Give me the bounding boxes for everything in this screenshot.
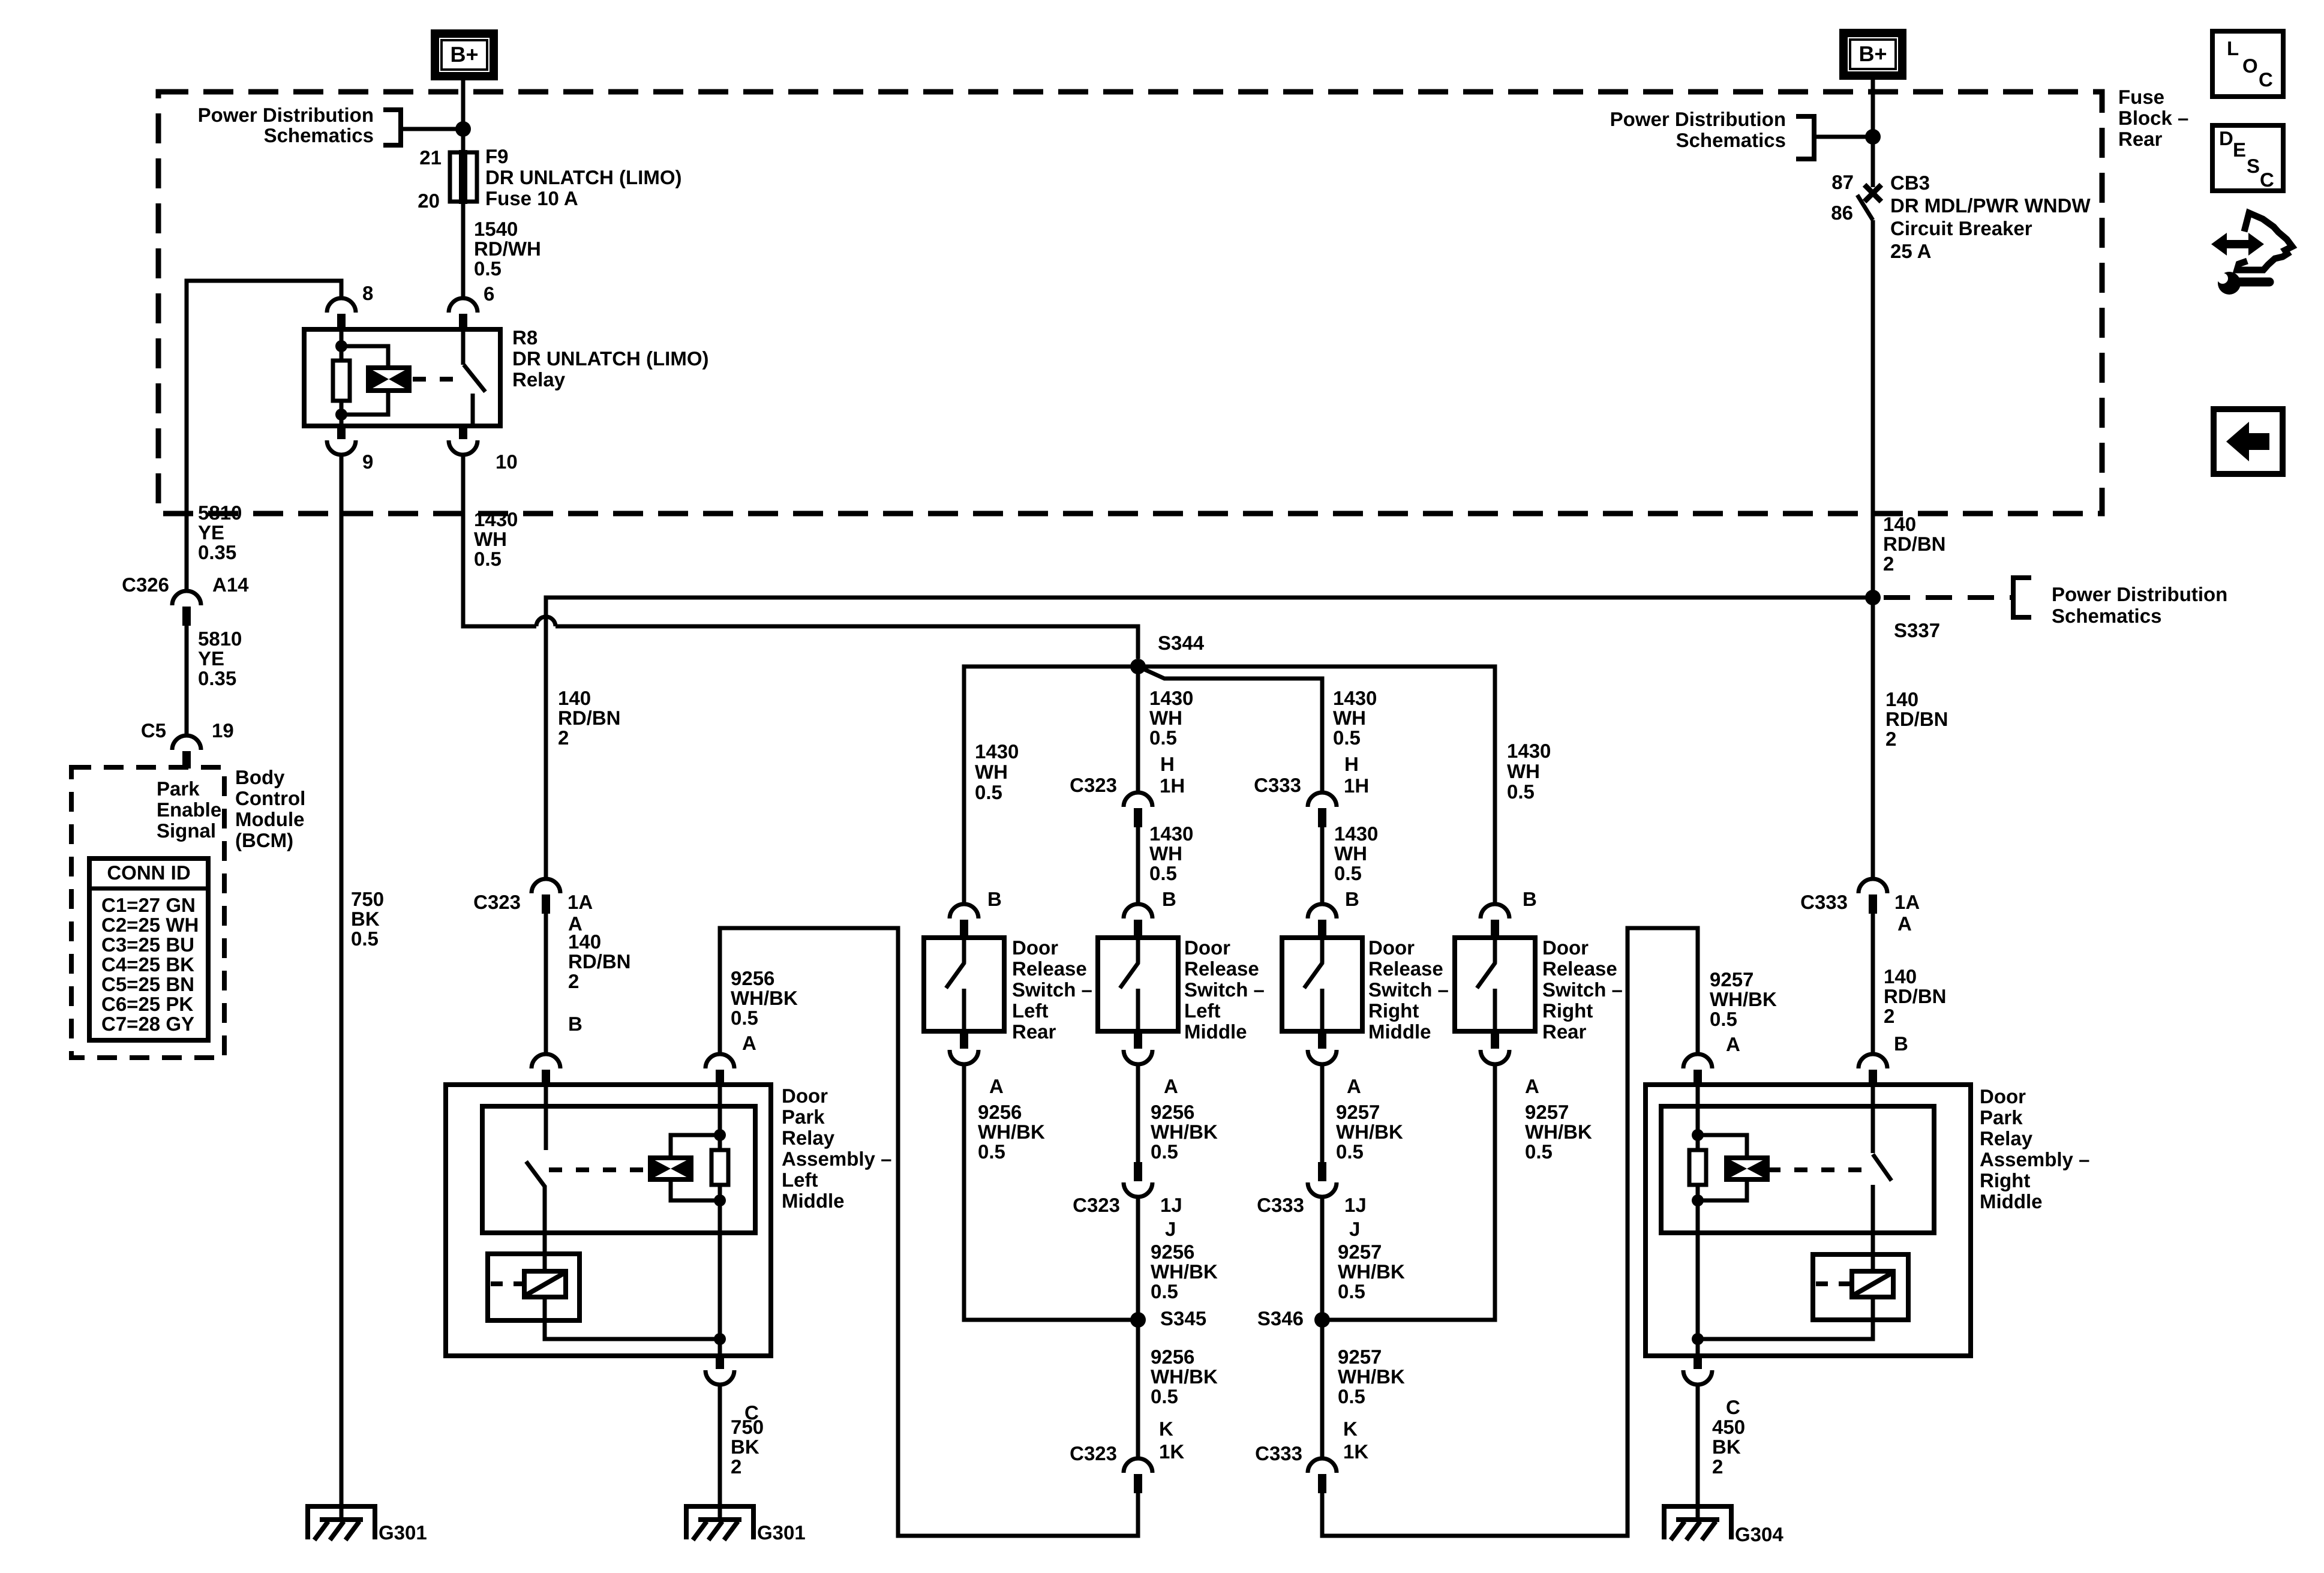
svg-text:9256: 9256 — [1151, 1241, 1194, 1263]
pin B label (Left Middle) — [1162, 888, 1176, 910]
fuse block dashed border (Fuse Block - Rear) — [158, 92, 2102, 514]
right assembly switch contact wire — [1871, 1185, 1875, 1271]
svg-text:S337: S337 — [1894, 619, 1940, 641]
coil in right assembly — [1727, 1158, 1767, 1179]
svg-text:0.5: 0.5 — [1338, 1280, 1365, 1302]
svg-text:Park: Park — [157, 778, 200, 800]
svg-text:BK: BK — [351, 908, 380, 930]
door park relay assembly right middle outer box — [1646, 1085, 1971, 1356]
pin label K 1K (C323) — [1159, 1418, 1184, 1463]
svg-text:Relay: Relay — [512, 368, 566, 391]
connector pin 9 of relay R8 — [327, 426, 356, 455]
svg-text:0.35: 0.35 — [198, 667, 236, 689]
splice S344 — [1130, 659, 1146, 674]
wire B+ left down to fuse F9 — [461, 80, 466, 154]
svg-text:1430: 1430 — [975, 740, 1019, 763]
wire label 9256 WH/BK 0.5 (LM out) — [1151, 1101, 1218, 1163]
svg-text:WH/BK: WH/BK — [1338, 1260, 1405, 1283]
wire label 5810 YE 0.35 (lower) — [198, 628, 242, 689]
label Door Release Switch Left Rear — [1012, 936, 1092, 1043]
svg-text:A: A — [1525, 1075, 1539, 1097]
svg-text:Schematics: Schematics — [2052, 605, 2161, 627]
svg-text:Middle: Middle — [1184, 1020, 1247, 1043]
left assembly switch contact wire — [543, 1186, 547, 1271]
right assembly coil loop — [1698, 1135, 1747, 1200]
ground G301 (center) — [686, 1506, 753, 1540]
svg-text:D: D — [2219, 127, 2233, 149]
left assembly switch stem — [544, 1085, 548, 1150]
svg-text:Park: Park — [782, 1106, 825, 1128]
svg-text:E: E — [2233, 139, 2246, 161]
junction dot left assembly bottom — [714, 1333, 726, 1345]
power symbol B+ (right) — [1843, 33, 1902, 76]
label Door Release Switch Left Middle — [1184, 936, 1265, 1043]
wire 140 RD/BN from CB3 down to S337 — [1871, 220, 1875, 599]
svg-text:B: B — [1894, 1032, 1908, 1055]
label Door Release Switch Right Middle — [1368, 936, 1449, 1043]
pin label 1A A (C323) — [568, 891, 593, 935]
wire label 1430 WH 0.5 (diagonal feed) — [1333, 687, 1377, 749]
svg-text:9256: 9256 — [731, 967, 774, 989]
junction dot below right B+ — [1865, 129, 1881, 145]
svg-text:Left: Left — [1012, 999, 1049, 1022]
pin B label (right assembly) — [1894, 1032, 1908, 1055]
pin A label (left assembly) — [742, 1032, 756, 1054]
svg-text:Release: Release — [1542, 957, 1617, 980]
thermal element (diagonal) right assembly — [1852, 1271, 1893, 1297]
right assembly A wire lower — [1696, 1185, 1700, 1356]
svg-text:B: B — [1523, 888, 1537, 910]
svg-text:A: A — [1897, 912, 1912, 935]
thermal element box right assembly — [1813, 1254, 1908, 1320]
svg-text:J: J — [1165, 1218, 1176, 1240]
wire 750 BK 0.5 from relay pin 9 to G301 — [340, 455, 344, 1522]
svg-text:Switch –: Switch – — [1542, 978, 1623, 1001]
wire label 1430 WH 0.5 (right rear feed) — [1507, 740, 1551, 803]
R8 coil-to-switch dashed link — [413, 377, 454, 382]
R8 switch contact — [471, 394, 475, 426]
svg-text:140: 140 — [558, 687, 591, 709]
connector C5 pin 19 — [172, 736, 201, 769]
junction dot right assembly bottom — [1692, 1333, 1704, 1345]
pin 21 label — [419, 146, 442, 169]
svg-text:0.5: 0.5 — [1333, 727, 1361, 749]
thermal element box left assembly — [488, 1254, 580, 1320]
connector pin A (left assembly) — [705, 1054, 734, 1085]
icon outline shape — [2237, 213, 2292, 270]
icon box back-arrow — [2214, 409, 2283, 474]
wire label 9256 WH/BK 0.5 (below S345) — [1151, 1346, 1218, 1407]
off-page bracket Power Distribution Schematics (S337) — [2013, 578, 2031, 617]
svg-text:1430: 1430 — [1149, 822, 1193, 845]
svg-text:Circuit Breaker: Circuit Breaker — [1890, 217, 2032, 239]
connector pin B (left assembly) — [532, 1054, 560, 1085]
svg-text:Body: Body — [235, 766, 285, 788]
svg-text:WH/BK: WH/BK — [731, 987, 798, 1009]
wire Right Rear A to S346 — [1329, 1064, 1495, 1320]
pin label 1J J (C323) — [1160, 1194, 1182, 1240]
resistor in right assembly — [1689, 1150, 1706, 1185]
svg-text:1430: 1430 — [1333, 687, 1377, 709]
svg-text:B+: B+ — [450, 42, 478, 67]
svg-text:21: 21 — [419, 146, 442, 169]
thermal element dashed stub — [491, 1281, 524, 1286]
connector C333 pin 1J — [1308, 1162, 1337, 1197]
connector pin 6 of relay R8 — [449, 298, 478, 329]
svg-text:1540: 1540 — [474, 218, 518, 240]
wire Left Rear A to S345 — [964, 1064, 1131, 1320]
pin B label (Left Rear) — [987, 888, 1002, 910]
svg-text:C333: C333 — [1800, 891, 1848, 913]
svg-text:Door: Door — [782, 1085, 828, 1107]
splice S345 — [1130, 1312, 1146, 1328]
junction dot left assembly lower — [714, 1194, 726, 1206]
icon double arrow — [2211, 233, 2264, 256]
pin A label (Right Rear) — [1525, 1075, 1539, 1097]
svg-text:C326: C326 — [122, 574, 169, 596]
label Park Enable Signal — [157, 778, 221, 842]
svg-text:Assembly –: Assembly – — [1980, 1148, 2089, 1170]
svg-text:1J: 1J — [1344, 1194, 1367, 1216]
svg-text:RD/BN: RD/BN — [1884, 985, 1947, 1007]
label R8 DR UNLATCH (LIMO) Relay — [512, 326, 709, 391]
label C326 — [122, 574, 169, 596]
svg-text:Schematics: Schematics — [1676, 129, 1786, 151]
svg-text:R8: R8 — [512, 326, 538, 349]
svg-text:Middle: Middle — [1980, 1190, 2043, 1212]
splice S346 — [1314, 1312, 1330, 1328]
connector C323 pin 1A — [532, 879, 560, 914]
off-page bracket Power Distribution Schematics (left) — [383, 110, 401, 145]
label C333 (pin H) — [1254, 774, 1301, 796]
svg-text:450: 450 — [1712, 1416, 1745, 1438]
svg-text:DR UNLATCH (LIMO): DR UNLATCH (LIMO) — [485, 166, 682, 188]
svg-text:Rear: Rear — [1012, 1020, 1056, 1043]
svg-text:0.5: 0.5 — [1334, 862, 1362, 884]
wire Right Middle A to C333 1J — [1320, 1064, 1325, 1163]
wire label 750 BK 2 — [731, 1416, 764, 1478]
svg-text:Release: Release — [1012, 957, 1087, 980]
label Power Distribution Schematics (S337) — [2052, 583, 2227, 627]
wire C323-K routed to Left Middle assembly pin A — [720, 928, 1138, 1536]
svg-text:0.5: 0.5 — [1151, 1280, 1178, 1302]
svg-text:Left: Left — [782, 1169, 818, 1191]
svg-text:Enable: Enable — [157, 798, 221, 821]
svg-text:G301: G301 — [757, 1521, 806, 1544]
connector pin A (right assembly) — [1683, 1054, 1712, 1085]
svg-text:1A: 1A — [1894, 891, 1920, 913]
splice S337 — [1865, 590, 1881, 605]
svg-text:2: 2 — [568, 970, 579, 992]
svg-text:Release: Release — [1368, 957, 1443, 980]
svg-text:C6=25 PK: C6=25 PK — [101, 993, 193, 1015]
svg-text:O: O — [2242, 55, 2258, 77]
svg-text:RD/WH: RD/WH — [474, 238, 541, 260]
svg-text:A: A — [1164, 1075, 1178, 1097]
svg-text:C7=28 GY: C7=28 GY — [101, 1013, 194, 1035]
wire C333-1A to right assembly pin B — [1871, 914, 1875, 1055]
svg-text:A: A — [1726, 1033, 1740, 1055]
pin 8 label — [362, 282, 373, 304]
svg-text:1J: 1J — [1160, 1194, 1182, 1216]
svg-text:BK: BK — [1712, 1436, 1741, 1458]
svg-text:2: 2 — [1885, 728, 1896, 750]
right assembly bottom link to A wire — [1698, 1297, 1873, 1339]
wire C323-1A to left assembly pin B — [544, 914, 548, 1055]
svg-text:S: S — [2247, 155, 2260, 177]
svg-text:1K: 1K — [1159, 1440, 1184, 1463]
wire S344 diagonal branch to C333 pin H — [1138, 667, 1322, 794]
pin 6 label — [484, 283, 494, 305]
label Door Park Relay Assembly Right Middle — [1980, 1085, 2089, 1212]
svg-text:WH: WH — [975, 761, 1008, 783]
connector pin 10 of relay R8 — [449, 426, 478, 455]
pin 10 label — [496, 451, 518, 473]
CONN ID rows — [101, 894, 199, 1035]
wire label 140 RD/BN 2 (left riser) — [558, 687, 621, 749]
connector C323 pin 1J — [1124, 1162, 1152, 1197]
wire C323-H to Left Middle switch B — [1136, 827, 1140, 905]
svg-text:Signal: Signal — [157, 819, 216, 842]
svg-text:BK: BK — [731, 1436, 759, 1458]
circuit breaker CB3 X mark — [1864, 185, 1881, 202]
svg-text:0.5: 0.5 — [474, 548, 502, 570]
junction dot R8 upper — [335, 340, 347, 352]
svg-text:DR UNLATCH (LIMO): DR UNLATCH (LIMO) — [512, 347, 709, 370]
coil in left assembly — [650, 1158, 691, 1179]
wire C326 to C5 — [185, 626, 189, 736]
ground G301 (left) — [308, 1506, 375, 1540]
svg-text:B: B — [1162, 888, 1176, 910]
wire B+ right down to CB3 — [1871, 80, 1875, 187]
connector pin B (right assembly) — [1858, 1054, 1887, 1085]
label Power Distribution Schematics (left) — [198, 104, 374, 146]
door park relay assembly left middle outer box — [446, 1085, 771, 1356]
svg-text:C3=25 BU: C3=25 BU — [101, 933, 194, 956]
junction dot R8 lower — [335, 409, 347, 421]
label C323 (pin 1J) — [1073, 1194, 1120, 1216]
pin label A14 — [212, 574, 249, 596]
svg-text:WH: WH — [1334, 842, 1367, 864]
CONN ID header — [107, 861, 190, 884]
wire 750 BK 2 to ground G301 — [718, 1385, 722, 1522]
svg-text:1A: 1A — [568, 891, 593, 913]
wire S344 right arm to Right Rear switch — [1138, 667, 1495, 905]
svg-text:A: A — [1347, 1075, 1361, 1097]
svg-text:2: 2 — [731, 1455, 741, 1478]
svg-text:G304: G304 — [1735, 1523, 1783, 1545]
svg-text:Middle: Middle — [1368, 1020, 1431, 1043]
pin 9 label — [362, 451, 373, 473]
svg-text:C2=25 WH: C2=25 WH — [101, 914, 199, 936]
svg-text:L: L — [2227, 37, 2239, 59]
svg-text:Block –: Block – — [2118, 107, 2188, 129]
svg-text:Module: Module — [235, 808, 304, 830]
svg-text:(BCM): (BCM) — [235, 829, 293, 851]
svg-text:0.5: 0.5 — [978, 1140, 1005, 1163]
svg-text:0.5: 0.5 — [1710, 1008, 1737, 1030]
wire label 140 RD/BN 2 (to left assembly) — [568, 930, 631, 992]
label Body Control Module (BCM) — [235, 766, 305, 851]
R8 switch blade — [464, 365, 485, 392]
wire from BCM riser to relay pin 8 — [187, 281, 341, 592]
CONN ID header underline — [92, 887, 206, 891]
connector pin 8 of relay R8 — [327, 298, 356, 329]
svg-text:140: 140 — [568, 930, 601, 953]
wire to power distribution bracket (right top) — [1814, 135, 1873, 139]
off-page bracket Power Distribution Schematics (right top) — [1796, 116, 1814, 159]
svg-text:8: 8 — [362, 282, 373, 304]
svg-text:2: 2 — [558, 727, 569, 749]
svg-text:WH/BK: WH/BK — [1151, 1121, 1218, 1143]
svg-text:CONN ID: CONN ID — [107, 861, 190, 884]
pin B label (left assembly) — [568, 1013, 582, 1035]
left assembly A wire upper — [718, 1085, 722, 1150]
svg-text:0.5: 0.5 — [1525, 1140, 1553, 1163]
right assembly switch blade — [1873, 1154, 1891, 1181]
svg-text:9256: 9256 — [1151, 1101, 1194, 1123]
ground G304 — [1664, 1506, 1731, 1540]
pin A label (Left Middle) — [1164, 1075, 1178, 1097]
label C323 (pin K) — [1070, 1442, 1117, 1464]
pin 86 label — [1831, 202, 1853, 224]
pin A label (Right Middle) — [1347, 1075, 1361, 1097]
connector C333 pin H — [1308, 792, 1337, 827]
pin label 1A A (C333) — [1894, 891, 1920, 935]
wire S344 left arm to Left Rear switch — [964, 667, 1138, 905]
svg-text:0.5: 0.5 — [1151, 1140, 1178, 1163]
svg-text:Relay: Relay — [782, 1127, 835, 1149]
svg-text:H: H — [1160, 753, 1175, 775]
svg-text:WH/BK: WH/BK — [1525, 1121, 1592, 1143]
wire label 140 RD/BN 2 (below S337) — [1885, 688, 1948, 750]
svg-text:Door: Door — [1368, 936, 1415, 959]
left assembly coil dashed link — [549, 1167, 650, 1172]
wire 5810 YE down from fuse box — [185, 591, 189, 592]
svg-text:19: 19 — [212, 719, 234, 742]
label C333 (pin 1A) — [1800, 891, 1848, 913]
door release switch Left Rear — [924, 904, 1004, 1064]
svg-text:140: 140 — [1884, 965, 1917, 987]
svg-text:Switch –: Switch – — [1184, 978, 1265, 1001]
label C323 (pin 1A) — [473, 891, 521, 913]
pin B label (Right Rear) — [1523, 888, 1537, 910]
connector C323 pin K — [1124, 1458, 1152, 1493]
label Door Release Switch Right Rear — [1542, 936, 1623, 1043]
resistor in left assembly — [711, 1150, 728, 1185]
wire C333-K routed to Right Middle assembly pin A — [1322, 928, 1698, 1536]
svg-text:9257: 9257 — [1525, 1101, 1569, 1123]
fuse F9 symbol — [450, 150, 477, 204]
svg-text:Fuse 10 A: Fuse 10 A — [485, 187, 578, 209]
svg-text:CB3: CB3 — [1890, 172, 1930, 194]
svg-text:WH: WH — [1507, 760, 1540, 782]
pin 87 label — [1831, 171, 1854, 193]
label S337 — [1894, 619, 1940, 641]
label C333 (pin 1J) — [1257, 1194, 1304, 1216]
label G301 (center) — [757, 1521, 806, 1544]
svg-text:9257: 9257 — [1338, 1346, 1382, 1368]
svg-text:WH: WH — [1149, 842, 1182, 864]
connector pin C (left assembly) — [705, 1356, 734, 1385]
svg-text:F9: F9 — [485, 145, 509, 167]
label Power Distribution Schematics (right top) — [1610, 108, 1786, 151]
svg-text:Assembly –: Assembly – — [782, 1148, 891, 1170]
circuit breaker CB3 blade — [1857, 195, 1873, 220]
pin A label (Left Rear) — [989, 1075, 1004, 1097]
svg-text:K: K — [1159, 1418, 1173, 1440]
left assembly contact wire through element — [543, 1297, 547, 1339]
icon wrench — [2217, 272, 2269, 295]
right assembly coil dashed link — [1767, 1167, 1869, 1172]
svg-text:1430: 1430 — [1149, 687, 1193, 709]
svg-text:5810: 5810 — [198, 628, 242, 650]
wire label 9256 WH/BK 0.5 (above S345) — [1151, 1241, 1218, 1302]
svg-text:Middle: Middle — [782, 1190, 845, 1212]
wire label 1430 WH 0.5 (left rear feed) — [975, 740, 1019, 803]
svg-text:2: 2 — [1883, 553, 1894, 575]
svg-text:C5: C5 — [141, 719, 166, 742]
junction dot below left B+ — [455, 121, 471, 137]
svg-text:WH/BK: WH/BK — [1710, 988, 1777, 1010]
wire label 9257 WH/BK 0.5 (below S346) — [1338, 1346, 1405, 1407]
svg-text:RD/BN: RD/BN — [1885, 708, 1948, 730]
svg-text:Power Distribution: Power Distribution — [1610, 108, 1786, 130]
svg-text:Door: Door — [1012, 936, 1058, 959]
svg-text:Rear: Rear — [2118, 128, 2163, 150]
wire S345 to C323 K — [1136, 1320, 1140, 1458]
pin label H 1H (C323) — [1160, 753, 1185, 797]
svg-text:C333: C333 — [1257, 1194, 1304, 1216]
R8 lower coil wire to pin 9 — [340, 415, 344, 427]
power symbol B+ (left) — [435, 34, 494, 76]
svg-text:Relay: Relay — [1980, 1127, 2033, 1149]
svg-text:WH/BK: WH/BK — [1151, 1365, 1218, 1388]
svg-text:9: 9 — [362, 451, 373, 473]
wire 450 BK 2 to ground G304 — [1696, 1385, 1700, 1522]
wire to power distribution bracket (left) — [401, 127, 463, 131]
wire label 450 BK 2 — [1712, 1416, 1745, 1478]
svg-text:Park: Park — [1980, 1106, 2023, 1128]
svg-text:WH: WH — [1149, 707, 1182, 729]
door release switch Right Rear — [1455, 904, 1535, 1064]
wire label 140 RD/BN 2 (to right assembly) — [1884, 965, 1947, 1027]
svg-text:DR MDL/PWR WNDW: DR MDL/PWR WNDW — [1890, 194, 2091, 217]
thermal element (diagonal) left assembly — [524, 1271, 566, 1297]
wire label 9256 WH/BK 0.5 (LR out) — [978, 1101, 1045, 1163]
wire label 9257 WH/BK 0.5 (assembly A riser right) — [1710, 968, 1777, 1030]
svg-text:Schematics: Schematics — [264, 124, 374, 146]
pin C label (left assembly) — [744, 1401, 759, 1424]
svg-text:Switch –: Switch – — [1012, 978, 1092, 1001]
svg-text:Power Distribution: Power Distribution — [198, 104, 374, 126]
pin label H 1H (C333) — [1344, 753, 1369, 797]
svg-text:750: 750 — [351, 888, 384, 910]
svg-text:C323: C323 — [1070, 1442, 1117, 1464]
pin label K 1K (C333) — [1343, 1418, 1368, 1463]
svg-text:S346: S346 — [1257, 1307, 1304, 1329]
svg-text:0.5: 0.5 — [975, 781, 1002, 803]
coil (solenoid) of relay R8 — [368, 368, 409, 391]
svg-text:B: B — [1345, 888, 1359, 910]
svg-text:25 A: 25 A — [1890, 240, 1931, 262]
svg-text:Release: Release — [1184, 957, 1259, 980]
svg-text:RD/BN: RD/BN — [1883, 533, 1946, 555]
pin B label (Right Middle) — [1345, 888, 1359, 910]
connector C333 pin K — [1308, 1458, 1337, 1493]
svg-text:0.5: 0.5 — [1151, 1385, 1178, 1407]
label S345 — [1160, 1307, 1206, 1329]
